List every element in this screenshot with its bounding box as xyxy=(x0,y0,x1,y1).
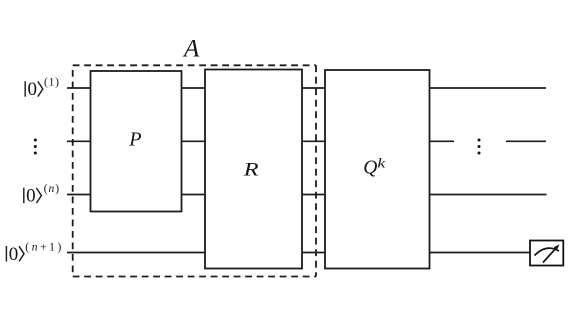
svg-text:A: A xyxy=(182,36,200,63)
svg-text:0: 0 xyxy=(26,186,35,207)
svg-text:(n): (n) xyxy=(44,183,60,195)
svg-text:(1): (1) xyxy=(44,77,60,89)
svg-text:Q: Q xyxy=(363,157,377,178)
svg-text:(n+1): (n+1) xyxy=(25,241,64,253)
svg-text:0: 0 xyxy=(9,244,19,265)
svg-text:k: k xyxy=(377,156,386,171)
svg-text:0: 0 xyxy=(28,79,38,100)
svg-text:R: R xyxy=(243,159,259,180)
svg-text:P: P xyxy=(128,129,141,151)
